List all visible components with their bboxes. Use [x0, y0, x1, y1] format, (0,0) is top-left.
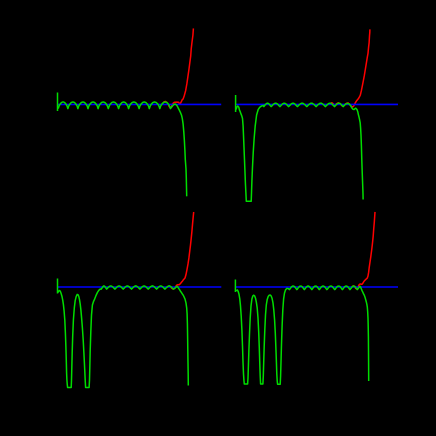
- BL green error curve: [58, 286, 188, 388]
- TL green error curve: [58, 102, 187, 196]
- TR blue baseline: [236, 103, 398, 105]
- BR green start spike: [234, 280, 236, 293]
- BR green error curve: [236, 286, 368, 384]
- TL blue baseline: [58, 103, 222, 105]
- TL green start spike: [57, 93, 59, 112]
- BL green start spike: [57, 279, 59, 294]
- TL red diverging curve: [162, 28, 193, 108]
- BR red diverging curve: [352, 212, 375, 289]
- BL red diverging curve: [167, 212, 194, 289]
- TR red diverging curve: [331, 29, 370, 107]
- BR blue baseline: [236, 286, 398, 288]
- TR green start spike: [235, 95, 237, 112]
- TR green error curve: [236, 103, 363, 201]
- BL blue baseline: [57, 286, 221, 288]
